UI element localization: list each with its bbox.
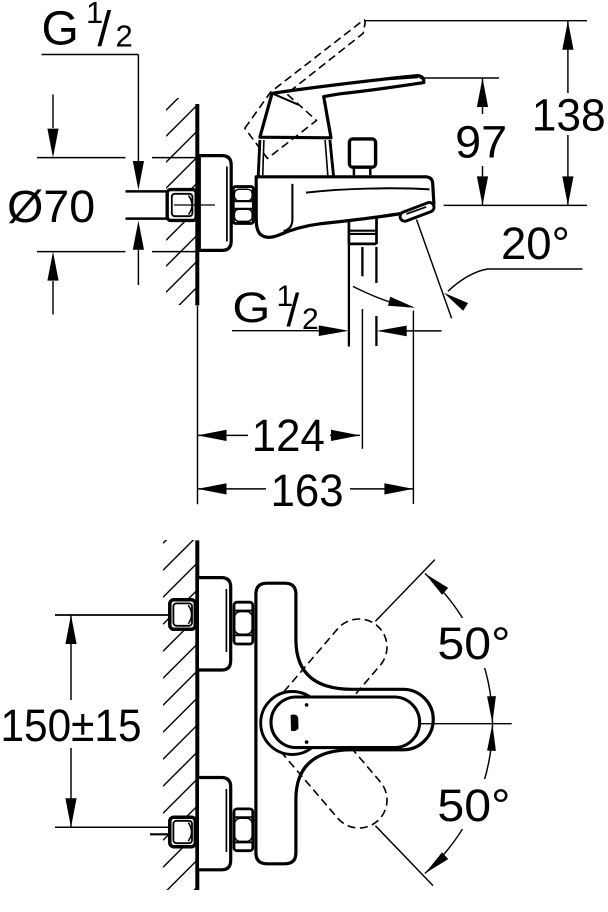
svg-text:50°: 50° [437, 618, 510, 669]
svg-text:138: 138 [532, 90, 606, 141]
svg-text:/: / [98, 3, 112, 57]
svg-text:G: G [232, 285, 270, 332]
svg-text:150±15: 150±15 [1, 700, 142, 751]
svg-text:20°: 20° [501, 218, 570, 269]
svg-text:2: 2 [116, 19, 133, 54]
svg-text:124: 124 [252, 410, 325, 461]
svg-text:163: 163 [271, 465, 344, 516]
svg-text:/: / [287, 284, 300, 336]
svg-text:G: G [42, 3, 79, 56]
svg-text:Ø70: Ø70 [7, 181, 95, 232]
svg-text:2: 2 [302, 303, 319, 336]
svg-text:97: 97 [455, 116, 507, 167]
svg-text:50°: 50° [437, 780, 510, 831]
